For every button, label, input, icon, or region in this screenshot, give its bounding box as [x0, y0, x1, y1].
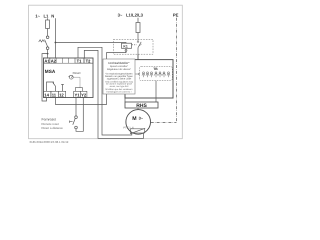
- svg-text:zugelassen, siehe Liste!: zugelassen, siehe Liste!: [107, 77, 132, 80]
- terminal 12: [58, 91, 65, 97]
- svg-text:homologués en zone Ex !: homologués en zone Ex !: [107, 90, 132, 93]
- svg-text:L1/L2/L3: L1/L2/L3: [126, 13, 144, 18]
- reset button symbol: [69, 75, 73, 79]
- svg-text:areas, see type list!: areas, see type list!: [110, 85, 129, 88]
- fuse F2: [136, 23, 140, 33]
- wire N: [54, 18, 56, 58]
- PE connection to motor (dash-dot): [151, 121, 177, 123]
- contactor assembly dashed enclosure: [114, 39, 154, 54]
- wire T1 to PTC (outer loop): [78, 47, 132, 135]
- svg-text:11: 11: [52, 92, 57, 97]
- RHS box: [125, 102, 158, 108]
- wire branch to terminal 14: [42, 54, 48, 101]
- wire L1 drop to fuse: [47, 18, 49, 20]
- remote reset switch S2: [75, 116, 78, 119]
- svg-text:N: N: [51, 13, 54, 18]
- svg-text:1~: 1~: [35, 13, 40, 18]
- svg-text:12: 12: [59, 92, 64, 97]
- wire 11 to coil K1: [56, 51, 127, 104]
- svg-text:T2: T2: [86, 59, 92, 64]
- svg-text:3~: 3~: [139, 116, 144, 121]
- wire fuse to switch: [47, 29, 49, 36]
- border frame: [29, 5, 183, 139]
- fuse F1: [46, 20, 50, 29]
- wire switch to Y2: [76, 98, 83, 132]
- contactor coil K1: [122, 43, 132, 48]
- relay changeover contact inside MSA: [47, 82, 54, 91]
- TB terminal 2: [146, 72, 149, 77]
- svg-text:M: M: [132, 116, 136, 122]
- annotation leader arrow: [135, 73, 139, 75]
- terminal A2: [50, 58, 56, 63]
- wire RHS to motor: [137, 108, 139, 110]
- coil terminal circle: [125, 50, 127, 52]
- svg-text:Régulateur de vitesse*: Régulateur de vitesse*: [107, 68, 131, 71]
- TB terminal 7: [167, 72, 170, 77]
- svg-text:A1: A1: [44, 59, 50, 64]
- svg-text:Reset: Reset: [73, 71, 81, 75]
- TB terminal 1: [142, 72, 145, 77]
- PE conductor (dash-dot): [175, 18, 177, 123]
- top row empty cells: [56, 58, 93, 63]
- reset input element: [75, 88, 82, 91]
- mechanical link: [132, 44, 137, 46]
- svg-text:3~: 3~: [118, 13, 123, 18]
- terminal 11: [51, 91, 58, 97]
- svg-text:Y2: Y2: [81, 92, 87, 97]
- MSA unit box: [44, 58, 94, 98]
- reset link wire: [73, 77, 80, 88]
- annotation box speed controller: [103, 59, 135, 94]
- TB terminal 6: [163, 72, 166, 77]
- switch S1 actuator: [39, 40, 45, 42]
- svg-text:L1: L1: [44, 13, 50, 18]
- svg-text:Fernreset: Fernreset: [42, 118, 57, 122]
- motor M1: [126, 110, 151, 135]
- svg-text:TB: TB: [153, 67, 158, 71]
- wire unit to RHS left: [124, 98, 126, 102]
- wire TB output: [155, 81, 157, 98]
- junction dot N/K1 branch: [55, 42, 57, 44]
- svg-text:14: 14: [44, 92, 49, 97]
- svg-text:Y1: Y1: [75, 92, 81, 97]
- thermistor in motor: [131, 129, 145, 133]
- terminal Y2: [80, 91, 87, 97]
- wire unit to RHS right: [155, 98, 157, 102]
- terminal T1: [75, 58, 84, 63]
- svg-text:A2: A2: [51, 59, 57, 64]
- contactor main contact: [137, 42, 141, 60]
- svg-text:MSA: MSA: [45, 69, 56, 74]
- TB terminal 3: [150, 72, 153, 77]
- 3-pole slash: [139, 44, 141, 46]
- svg-text:K1: K1: [123, 45, 127, 49]
- terminal Y1: [74, 91, 81, 97]
- svg-text:PE: PE: [173, 12, 179, 17]
- terminal 14: [44, 91, 51, 97]
- wire T2 to PTC (inner loop): [84, 50, 143, 138]
- wire N to contactor coil K1: [55, 42, 126, 45]
- switch S1: [46, 36, 49, 39]
- switch S2 actuator: [70, 121, 73, 123]
- wire drop to fuse F2: [137, 18, 139, 23]
- wire Y1 to remote switch: [75, 98, 77, 116]
- svg-text:PTC 1..6: PTC 1..6: [123, 127, 134, 130]
- wire contact to unit: [137, 54, 139, 59]
- TB terminal 4: [155, 72, 158, 77]
- svg-text:T1: T1: [77, 59, 83, 64]
- wire fuse F2 to contact: [137, 33, 139, 42]
- terminal A1: [44, 58, 50, 63]
- svg-text:0185.0994.0000 ES 08.1 01/19: 0185.0994.0000 ES 08.1 01/19: [30, 140, 69, 144]
- terminal T2: [84, 58, 93, 63]
- junction dot L1/14 branch: [47, 53, 49, 55]
- TB terminal 5: [159, 72, 162, 77]
- svg-text:Reset à distance: Reset à distance: [42, 126, 64, 130]
- wire switch to A1: [47, 50, 49, 59]
- speed controller unit box: [125, 60, 173, 98]
- terminal board TB dashed box: [139, 66, 172, 80]
